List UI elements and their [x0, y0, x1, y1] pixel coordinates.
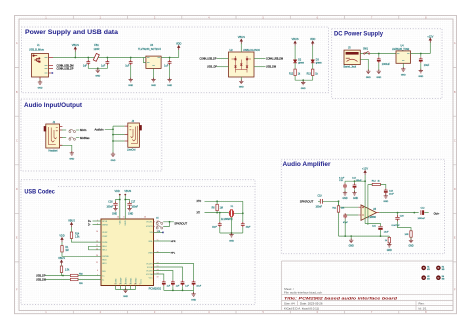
svg-text:DC Power Supply: DC Power Supply — [334, 31, 383, 38]
svg-text:SPKROUT: SPKROUT — [174, 221, 187, 225]
svg-text:1uF: 1uF — [125, 65, 130, 68]
svg-text:VSSP: VSSP — [102, 236, 108, 238]
junction J3 wire 3 — [112, 140, 114, 142]
power symbol VDD pulldown branch — [59, 234, 64, 245]
connector J1 pin stubs — [40, 58, 53, 80]
svg-text:CONN_USB_DP: CONN_USB_DP — [57, 67, 74, 70]
title block outline — [282, 261, 454, 311]
net label DPLS at U1 — [88, 220, 101, 223]
esd protection U2 body — [229, 52, 255, 77]
wire J1 shield to ground — [39, 79, 41, 82]
ferrite bead FB1 — [93, 53, 99, 61]
section box: USB Codec — [21, 180, 255, 305]
ground below J1 — [38, 80, 42, 84]
regulator U3 input EN tie wire — [142, 58, 146, 63]
svg-text:3: 3 — [129, 283, 130, 285]
resistor R12 gain — [368, 181, 386, 225]
svg-text:10R: 10R — [404, 234, 408, 236]
svg-text:GND: GND — [408, 246, 413, 248]
resistor R10 1k below bus — [385, 236, 391, 244]
capacitor C2 1uF — [101, 58, 109, 68]
svg-text:GND: GND — [353, 198, 358, 200]
svg-text:DPLS: DPLS — [102, 221, 108, 223]
svg-text:DSPE: DSPE — [102, 242, 108, 244]
wire J2 mic row — [62, 129, 66, 131]
power symbol VDD at rail end — [176, 41, 182, 57]
svg-text:R14: R14 — [75, 234, 80, 236]
ground below C18 — [376, 69, 381, 78]
capacitor C12 1000uF output — [418, 208, 429, 220]
svg-text:21: 21 — [96, 262, 98, 264]
opamp U5 LM386 — [358, 205, 376, 220]
resistor R11 10k input load — [332, 201, 345, 236]
ground below led branches — [301, 80, 306, 90]
svg-text:B: B — [16, 90, 18, 94]
svg-text:E: E — [16, 236, 18, 240]
capacitor C7 bypass — [162, 280, 171, 290]
audio jack J2 pin stubs — [60, 127, 63, 146]
svg-text:GND: GND — [167, 85, 172, 87]
wire crystal ground bus — [220, 217, 243, 233]
power symbol +12V — [427, 34, 433, 53]
capacitor C10 bypass — [192, 280, 202, 290]
svg-text:USBLC6-2SC6: USBLC6-2SC6 — [243, 49, 260, 52]
svg-text:GND: GND — [123, 296, 128, 298]
svg-text:USB Codec: USB Codec — [24, 188, 55, 195]
svg-text:VOUTL: VOUTL — [146, 222, 152, 224]
capacitor C16 100nF — [106, 199, 120, 209]
svg-text:GND: GND — [69, 159, 74, 161]
svg-text:GND: GND — [342, 198, 347, 200]
mounting hole H3 labels — [427, 276, 430, 281]
section box: Power Supply and USB data — [21, 27, 328, 93]
barrel jack J5 internal symbol — [346, 52, 359, 62]
connector J1 no-connect cross — [52, 72, 54, 74]
regulator U3 ground pin wire — [153, 68, 155, 78]
wire regulator output — [411, 53, 431, 55]
ground below C16 — [112, 207, 118, 216]
wire HPR row — [154, 241, 176, 243]
svg-text:VBUS: VBUS — [238, 35, 245, 39]
connector J1 USB logo — [33, 55, 40, 63]
svg-text:23: 23 — [144, 217, 146, 219]
ground below C14 — [352, 191, 358, 200]
junction amp input — [338, 200, 340, 202]
junction on rail at VBUS — [74, 57, 76, 59]
wire AudioIn to J3 — [105, 126, 125, 153]
barrel jack J5 labels — [344, 46, 357, 68]
svg-text:1: 1 — [139, 283, 140, 285]
svg-text:100uF: 100uF — [356, 180, 363, 182]
wire VIN row — [154, 232, 164, 234]
mounting hole H4 labels — [442, 276, 445, 281]
wire opamp bypass pin — [365, 224, 380, 227]
wire R1 to U1 — [62, 252, 101, 256]
svg-text:USB_DP: USB_DP — [36, 274, 46, 277]
connector J1 pin name marks — [45, 58, 48, 74]
regulator U3 labels — [138, 44, 161, 51]
barrel jack J5 body — [344, 50, 360, 65]
esd protection U2 labels — [230, 49, 261, 52]
ic U1 bottom ground pins — [116, 286, 136, 290]
svg-text:R12: R12 — [289, 74, 294, 76]
junction dp pullup — [62, 275, 64, 277]
wire C19 to opamp input — [324, 201, 359, 207]
svg-text:USB_DM: USB_DM — [266, 66, 276, 69]
junction at C2 — [107, 57, 109, 59]
junction R6 bottom — [216, 212, 218, 214]
junction crystal ground — [231, 232, 233, 234]
svg-text:100nF: 100nF — [106, 207, 113, 209]
audio jack J2 contacts — [48, 127, 58, 145]
svg-text:M3: M3 — [442, 279, 445, 281]
ferrite bead FB3 — [70, 278, 101, 285]
svg-text:LM386: LM386 — [369, 216, 377, 219]
usb codec inner dashed line — [58, 185, 255, 187]
svg-text:100nF: 100nF — [316, 207, 323, 209]
svg-text:GND: GND — [38, 88, 43, 90]
svg-text:1000uF: 1000uF — [418, 218, 426, 220]
wire R14 to U1 — [72, 239, 102, 243]
svg-text:VINR: VINR — [148, 252, 153, 254]
wire VCC row 1 — [154, 264, 194, 281]
junction crystal right — [242, 212, 244, 214]
mounting hole H4 — [436, 275, 441, 280]
wire VCC row 2 — [154, 267, 183, 280]
svg-text:VDD: VDD — [115, 190, 120, 193]
svg-text:C: C — [16, 138, 18, 142]
junction supply feed — [364, 180, 366, 182]
svg-text:Out+: Out+ — [434, 212, 440, 216]
net label DMNS at U1 — [88, 224, 101, 227]
junction at C1 — [87, 57, 89, 59]
capacitor C12 22pF right — [241, 222, 251, 233]
opamp U5 labels — [369, 208, 377, 219]
mounting hole H1 labels — [427, 266, 430, 271]
svg-text:TLV70233_SOT23-5: TLV70233_SOT23-5 — [138, 48, 161, 51]
svg-text:GND: GND — [418, 76, 423, 78]
net label XTO crystal — [197, 201, 243, 203]
svg-text:+12V: +12V — [427, 34, 433, 38]
net label USB_DM at U2 — [254, 66, 276, 69]
ic U1 bottom top pin numbers — [114, 217, 146, 286]
esd U2 ground pin — [239, 77, 244, 89]
svg-text:M3: M3 — [442, 269, 445, 271]
ic U1 bottom pin names — [115, 277, 142, 284]
svg-text:GND: GND — [387, 250, 392, 252]
svg-text:MicIn: MicIn — [80, 128, 87, 132]
resistor R2 1.5k — [60, 266, 70, 272]
svg-text:VDD: VDD — [310, 37, 316, 41]
wire J2 sleeve to ground — [62, 145, 72, 152]
svg-text:VCCDA: VCCDA — [146, 273, 153, 276]
ground below zobel — [408, 239, 413, 248]
svg-text:USB_DP: USB_DP — [207, 66, 217, 69]
svg-text:GND: GND — [301, 88, 306, 90]
ground tap on amp bus — [349, 236, 354, 248]
svg-text:GND: GND — [95, 76, 100, 78]
svg-text:VINL: VINL — [148, 241, 152, 243]
svg-text:D: D — [454, 187, 456, 191]
svg-text:SEL1: SEL1 — [102, 250, 107, 252]
wire opamp output — [377, 212, 380, 214]
section box: Audio Amplifier — [281, 159, 444, 254]
wire zobel cap to resistor — [398, 221, 412, 230]
audio jack J3 pin stubs — [125, 126, 128, 141]
svg-text:FB1: FB1 — [94, 44, 99, 47]
svg-text:VOUTR: VOUTR — [146, 226, 153, 228]
wire R2 to dp row — [62, 273, 64, 276]
svg-text:VDD: VDD — [120, 220, 122, 225]
svg-text:100nF: 100nF — [132, 207, 139, 209]
junction J3 wire — [112, 128, 114, 130]
mounting hole H2 — [436, 266, 441, 271]
capacitor C22 47pF — [343, 213, 348, 236]
ground below C3 — [128, 78, 133, 87]
regulator U4 pin name marks — [397, 54, 410, 61]
svg-text:C16: C16 — [108, 202, 113, 204]
jumper JP2 — [69, 137, 79, 140]
audio jack J2 body — [46, 124, 60, 148]
ground below R10 — [387, 243, 392, 252]
capacitor C21 10uF bypass — [372, 225, 389, 236]
svg-text:E: E — [454, 236, 456, 240]
svg-text:0.047uF: 0.047uF — [392, 225, 401, 227]
junction at C18 — [378, 53, 380, 55]
capacitor C20 0.047uF zobel — [392, 213, 405, 228]
svg-text:B: B — [454, 90, 456, 94]
svg-text:green: green — [316, 61, 323, 64]
esd U2 VBUS top pin — [238, 35, 245, 52]
wire amp ground bus — [339, 235, 390, 237]
connector J1 USB_B_Micro body — [32, 54, 49, 78]
net label CONN_USB_DM at U2 — [254, 58, 283, 61]
svg-text:VDD: VDD — [176, 41, 182, 45]
svg-text:VDDP: VDDP — [102, 232, 108, 234]
svg-text:1000uF: 1000uF — [382, 63, 391, 66]
power symbol VBUS above U1 — [124, 190, 131, 219]
capacitor C8 bypass — [171, 280, 180, 290]
junction R6 top — [216, 200, 218, 202]
svg-text:VBUS: VBUS — [292, 37, 299, 41]
title block text: sheet and file — [284, 287, 322, 295]
wire jack output to regulator — [360, 53, 396, 55]
ground below U4 — [401, 67, 406, 76]
ground below U3 — [151, 78, 156, 87]
svg-text:VBUS: VBUS — [58, 257, 65, 260]
svg-text:GND: GND — [111, 160, 116, 162]
ground below C17 — [127, 207, 133, 216]
resistor R1 1M — [61, 246, 69, 253]
svg-text:GND: GND — [401, 75, 406, 77]
svg-text:VCOM: VCOM — [147, 267, 153, 269]
capacitor C18 1000uF input — [377, 54, 391, 71]
mounting hole H3 — [421, 275, 426, 280]
capacitor C11 22pF left — [212, 213, 222, 233]
ground below J3 — [111, 152, 116, 162]
led D2 power indicator branch — [292, 37, 299, 69]
capacitor C3 1uF — [125, 58, 132, 79]
junction J3 wire 2 — [112, 134, 114, 136]
jumper FB4 on VOUTL — [154, 217, 163, 224]
svg-text:PCM2902: PCM2902 — [149, 286, 162, 290]
wire VCC row 4 — [154, 274, 164, 280]
svg-text:0.1uF: 0.1uF — [339, 177, 345, 179]
svg-text:GND: GND — [229, 240, 234, 242]
svg-text:1uF: 1uF — [164, 65, 169, 68]
capacitor C19 100nF coupling — [316, 196, 324, 209]
svg-text:SEL0: SEL0 — [102, 246, 107, 248]
svg-text:28: 28 — [134, 283, 136, 285]
audio jack J2 labels — [49, 121, 58, 152]
svg-text:Power Supply and USB data: Power Supply and USB data — [25, 29, 118, 36]
svg-text:VBUS: VBUS — [68, 219, 75, 222]
svg-text:10: 10 — [96, 231, 98, 233]
junction amp bus 2 — [350, 235, 352, 237]
power symbol +12V amp — [362, 166, 368, 223]
led D3 power indicator branch — [310, 37, 316, 69]
regulator U4 body — [396, 51, 411, 63]
junction at C4 — [169, 57, 171, 59]
svg-text:C19: C19 — [318, 196, 323, 198]
net label USB_DP at U2 — [207, 66, 229, 69]
junction amp bus 3 — [380, 235, 382, 237]
svg-text:7: 7 — [124, 283, 125, 285]
junction bypass bus 1 — [172, 290, 174, 292]
net label USB_DP at U1 — [36, 274, 70, 277]
svg-text:GND: GND — [383, 201, 388, 203]
svg-text:HID1: HID1 — [102, 263, 106, 265]
svg-text:10uF: 10uF — [384, 231, 389, 233]
section box: DC Power Supply — [332, 29, 442, 99]
led D2 labels — [298, 59, 305, 64]
svg-text:6: 6 — [97, 270, 98, 272]
regulator U3 pin name marks — [147, 58, 160, 66]
svg-text:16: 16 — [117, 217, 119, 219]
capacitor C17 100nF — [124, 199, 138, 209]
svg-text:A: A — [454, 41, 456, 45]
power symbol VDD above U1 — [115, 190, 121, 219]
svg-text:22pF: 22pF — [212, 226, 217, 228]
capacitor C4 1uF — [164, 58, 171, 79]
svg-text:AudioIn: AudioIn — [95, 127, 105, 131]
wire crystal right drop — [235, 201, 243, 222]
ground below C4 — [167, 78, 172, 87]
mounting hole H1 — [421, 266, 426, 271]
wire opamp inverting input — [345, 213, 358, 215]
junction C11 top — [219, 212, 221, 214]
svg-text:C: C — [454, 138, 456, 142]
svg-text:GND: GND — [366, 77, 371, 79]
ic U1 PCM2902 body — [101, 219, 154, 286]
svg-text:HPR: HPR — [171, 241, 176, 243]
svg-text:GND: GND — [349, 246, 354, 248]
svg-text:Headset: Headset — [49, 149, 58, 152]
switch SW1 — [363, 49, 370, 55]
resistor R13 10R zobel — [404, 231, 412, 240]
audio jack J2 sleeve tab — [44, 126, 46, 131]
title block text: size date rev id — [284, 302, 427, 311]
svg-text:LineOut: LineOut — [127, 148, 136, 151]
led D3 labels — [316, 59, 323, 64]
audio jack J3 body — [128, 123, 140, 147]
ground below U1 — [123, 288, 128, 297]
svg-text:USB_B_Micro: USB_B_Micro — [29, 48, 45, 51]
wire amp supply decoupling feed — [345, 180, 365, 182]
junction amp bus 1 — [344, 235, 346, 237]
svg-text:Audio Amplifier: Audio Amplifier — [283, 161, 331, 168]
ground below jack pin2 — [366, 69, 371, 78]
junction on C1C2 bus — [97, 67, 99, 69]
resistor R4 1k — [289, 69, 301, 80]
connector J1 USB_B_Micro reference label — [29, 44, 45, 51]
svg-text:19: 19 — [157, 277, 159, 279]
resistor R5 1k — [307, 69, 319, 80]
svg-text:+12V: +12V — [362, 166, 368, 170]
svg-text:VBUS: VBUS — [72, 43, 79, 47]
svg-text:GND: GND — [128, 85, 133, 87]
svg-text:VDD: VDD — [59, 234, 64, 237]
junction output zobel — [397, 212, 399, 214]
svg-text:SW1: SW1 — [363, 49, 369, 51]
svg-text:GND: GND — [191, 299, 196, 301]
svg-text:R13: R13 — [307, 74, 312, 76]
junction supply feed 2 — [354, 180, 356, 182]
svg-text:Title: PCM2902 based audio int: Title: PCM2902 based audio interface boa… — [284, 295, 398, 300]
audio jack J3 sleeve tab — [139, 125, 141, 130]
resistor R6 1M — [212, 201, 223, 212]
svg-text:Date: 2023-05-26: Date: 2023-05-26 — [300, 302, 323, 306]
ic U1 pin numbers — [96, 220, 159, 279]
wire VOUT rows to label — [163, 222, 174, 227]
junction at C3 — [130, 57, 132, 59]
svg-text:22pF: 22pF — [246, 226, 251, 228]
ic U1 right pin names — [146, 222, 153, 280]
svg-text:47pF: 47pF — [343, 222, 348, 224]
svg-text:Id: 1/1: Id: 1/1 — [419, 307, 427, 311]
ic U1 top pin names — [120, 220, 128, 226]
svg-text:GND: GND — [128, 214, 133, 216]
ic U1 left pin names — [102, 221, 109, 281]
svg-text:MicBias: MicBias — [80, 136, 90, 140]
svg-text:GND: GND — [112, 214, 117, 216]
ground below output cap — [418, 69, 423, 78]
capacitor C9 bypass — [181, 280, 190, 290]
svg-text:GND: GND — [376, 77, 381, 79]
svg-text:green: green — [298, 61, 305, 64]
svg-text:Barrel_Jack: Barrel_Jack — [344, 66, 357, 69]
wire C1 C2 ground bus — [88, 65, 107, 68]
capacitor C13 10uF gain — [384, 188, 395, 195]
svg-text:Audio Input/Output: Audio Input/Output — [24, 102, 83, 109]
wire J2 second row — [62, 137, 66, 139]
svg-text:VBUS: VBUS — [125, 220, 127, 226]
junction on led ground bus — [302, 79, 304, 81]
svg-text:VCCC: VCCC — [140, 278, 142, 284]
wire VDD rail right of U3 — [161, 57, 179, 59]
net label CONN_USB_DP at U2 — [200, 58, 229, 61]
regulator U4 ground pin wire — [402, 63, 404, 68]
svg-text:GND: GND — [151, 85, 156, 87]
wire bypass cap ground bus — [164, 289, 194, 291]
capacitor C19 10uF output — [419, 54, 430, 70]
svg-text:1uF: 1uF — [83, 65, 88, 68]
svg-text:GND: GND — [239, 87, 244, 89]
ferrite bead FB1 labels — [94, 44, 100, 51]
junction output cap — [413, 212, 415, 214]
svg-text:8: 8 — [119, 283, 120, 285]
ground below crystal — [229, 233, 234, 243]
